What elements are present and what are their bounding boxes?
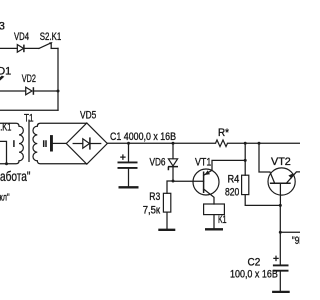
- ground of K1: [205, 228, 223, 230]
- node VT2 base / R4 junction: [279, 204, 282, 207]
- svg-text:K1: K1: [218, 214, 227, 226]
- transformer T1 primary winding I: [19, 126, 23, 161]
- svg-text:VD4: VD4: [14, 31, 29, 43]
- svg-text:C2: C2: [248, 257, 261, 269]
- VT2 base lead: [279, 183, 281, 205]
- svg-text:R*: R*: [218, 127, 230, 139]
- node R4 top junction: [244, 142, 247, 145]
- switch S2.K1 fixed contact: [50, 44, 52, 49]
- resistor R* zigzag: [216, 140, 228, 147]
- node primary bottom junction: [5, 162, 8, 165]
- switch S2.K1 lever: [39, 43, 51, 48]
- wire middle row to VD2: [0, 90, 26, 92]
- wire tap to bridge: [53, 142, 66, 144]
- transistor VT1: [193, 169, 219, 195]
- wire VD4 to switch: [24, 47, 39, 49]
- svg-text:VD5: VD5: [80, 109, 96, 121]
- main rail from bridge to R*: [107, 142, 215, 144]
- diode VD4: [17, 45, 23, 53]
- wire jog to R3: [167, 181, 173, 193]
- zener diode VD6: [172, 143, 174, 159]
- node output junction: [279, 231, 282, 234]
- resistor R3: [163, 193, 170, 212]
- label winding I: [13, 140, 15, 147]
- svg-text:820: 820: [225, 187, 239, 199]
- svg-text:100,0 x 16В: 100,0 x 16В: [230, 268, 278, 280]
- ground of C1: [119, 186, 139, 188]
- svg-text:"9В: "9В: [292, 235, 300, 247]
- VT1 collector: [204, 189, 214, 204]
- capacitor C1: [128, 143, 130, 161]
- svg-text:VT2: VT2: [271, 156, 291, 168]
- wire R4 branch: [244, 143, 246, 175]
- resistor R4: [242, 175, 249, 194]
- wire primary bottom lead: [0, 161, 19, 164]
- diode VD2: [26, 87, 32, 95]
- wire secondary bottom lead: [37, 161, 87, 164]
- wire switch to corner: [51, 47, 58, 49]
- svg-text:VD2: VD2: [22, 73, 36, 85]
- wire output to right edge: [280, 231, 300, 233]
- node base junction: [172, 180, 175, 183]
- svg-text:R4: R4: [228, 173, 240, 185]
- node VD6 junction: [172, 142, 175, 145]
- node C1 junction: [127, 142, 130, 145]
- node VD2/loop junction: [57, 90, 60, 93]
- VT1 emitter: [204, 160, 245, 175]
- node VT2 collector junction: [258, 142, 261, 145]
- svg-text:абота": абота": [0, 168, 31, 184]
- node emitter rail junction: [244, 159, 247, 162]
- ground of R3: [158, 229, 175, 231]
- VD1 arrow fragment: [0, 76, 4, 81]
- wire VD2 to junction: [33, 90, 58, 92]
- svg-text:VD6: VD6: [150, 157, 166, 169]
- svg-text:кл": кл": [0, 193, 10, 204]
- wire K1 contact lead: [0, 141, 7, 163]
- wire primary top lead: [0, 123, 19, 126]
- label winding II: [44, 140, 46, 147]
- wire right vertical of top loop: [57, 48, 59, 110]
- transformer T1 secondary winding II: [33, 126, 37, 161]
- svg-text:3: 3: [0, 21, 5, 33]
- bridge inner diode: [73, 143, 83, 145]
- transformer T1 core: [28, 120, 30, 161]
- svg-text:C1 4000,0 x 16В: C1 4000,0 x 16В: [110, 131, 176, 143]
- wire secondary top lead: [37, 123, 87, 126]
- ground of C2: [272, 291, 290, 293]
- bridge rectifier VD5 diamond: [66, 123, 107, 164]
- wire bottom of top loop: [0, 109, 58, 111]
- rail after R*: [228, 142, 301, 144]
- svg-text:S2.K1: S2.K1: [40, 31, 62, 43]
- switch S2.K1 arrow tip: [49, 42, 53, 45]
- wire VT2 collector branch: [259, 143, 275, 183]
- relay coil K1: [204, 204, 225, 215]
- wire base to VT1: [173, 180, 204, 182]
- wire top row to VD4: [0, 47, 17, 49]
- capacitor C2: [279, 232, 281, 264]
- svg-text:7,5к: 7,5к: [143, 204, 161, 216]
- wire down to output: [279, 205, 281, 232]
- tap bar plate: [50, 135, 53, 151]
- svg-text:VT1: VT1: [195, 157, 211, 169]
- svg-text:R3: R3: [149, 191, 160, 203]
- wire R4 bottom to VT2 base: [245, 195, 280, 206]
- transistor VT2: [268, 168, 295, 195]
- VT2 emitter: [286, 172, 300, 183]
